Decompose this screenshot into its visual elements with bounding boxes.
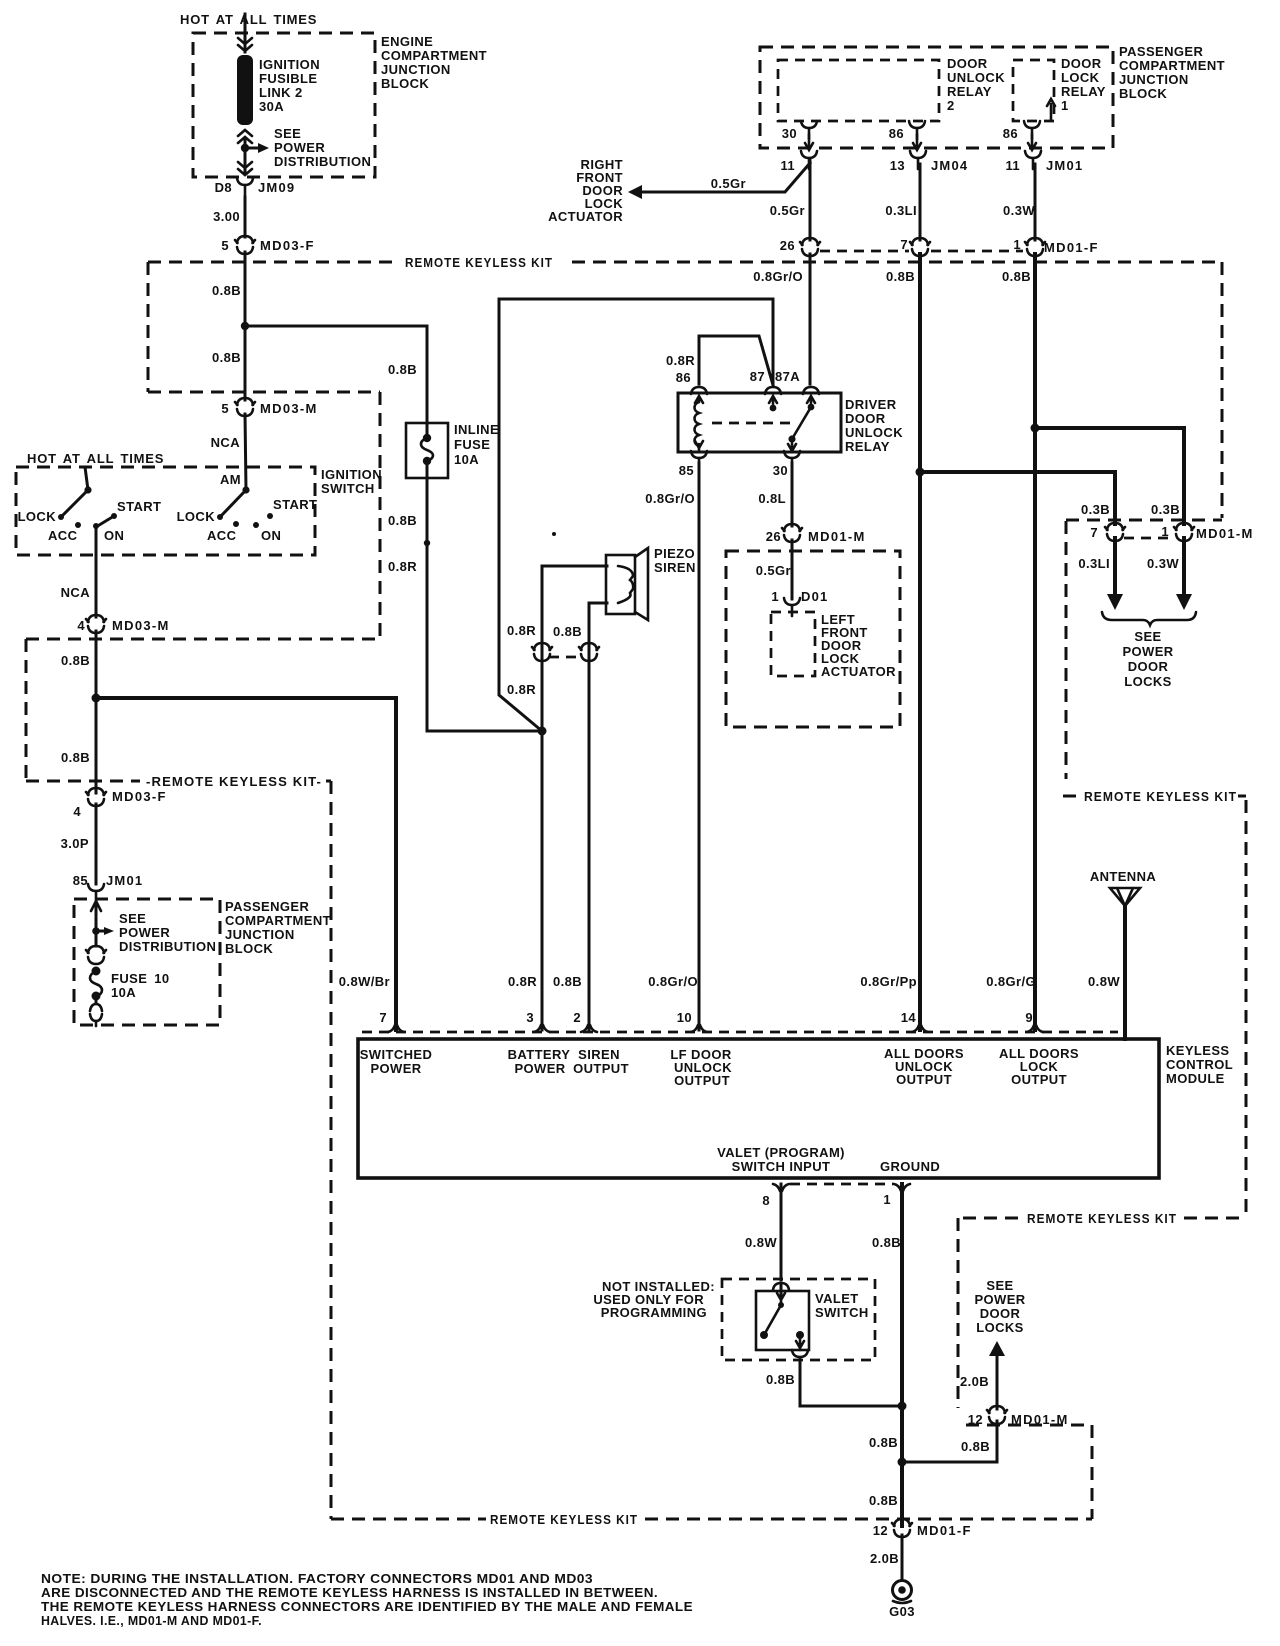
svg-text:REMOTE KEYLESS KIT: REMOTE KEYLESS KIT <box>1027 1211 1177 1226</box>
junction dot ground branch to MD01-M 12 <box>898 1458 907 1467</box>
connector pair on siren 0.8R lead <box>532 643 552 661</box>
svg-text:OUTPUT: OUTPUT <box>896 1072 952 1087</box>
svg-text:26: 26 <box>780 238 795 253</box>
svg-text:INLINE: INLINE <box>454 422 499 437</box>
svg-text:DOOR: DOOR <box>845 411 886 426</box>
relay K3 pin 30 stub <box>788 439 796 452</box>
svg-text:SEE: SEE <box>119 911 146 926</box>
remote keyless kit boundary: left label row dashes <box>26 780 140 783</box>
svg-text:HOT AT ALL TIMES: HOT AT ALL TIMES <box>180 12 317 27</box>
contact ACC (S1) <box>75 522 81 528</box>
svg-text:GROUND: GROUND <box>880 1159 940 1174</box>
factory harness boundary: top edge <box>148 391 380 394</box>
ignition switch box <box>16 467 315 555</box>
remote keyless kit boundary: mid right label row dash <box>1063 795 1081 798</box>
wire 0.3W to power door locks <box>1182 538 1186 596</box>
svg-text:30: 30 <box>773 463 788 478</box>
svg-text:JM09: JM09 <box>258 180 295 195</box>
svg-text:2: 2 <box>947 98 955 113</box>
relay K2 DOOR UNLOCK RELAY 2 (dashed box) <box>778 60 939 121</box>
relay K3 pin 85 connector <box>691 451 707 469</box>
svg-text:0.8R: 0.8R <box>507 623 536 638</box>
svg-text:0.8R: 0.8R <box>507 682 536 697</box>
svg-text:IGNITION: IGNITION <box>321 467 382 482</box>
svg-text:START: START <box>117 499 161 514</box>
svg-text:MD03-M: MD03-M <box>260 401 318 416</box>
svg-text:PIEZO: PIEZO <box>654 546 695 561</box>
svg-text:0.8B: 0.8B <box>553 974 582 989</box>
passenger compartment junction block (top, dashed box) <box>760 47 1113 148</box>
svg-text:0.3W: 0.3W <box>1003 203 1035 218</box>
wire 0.8B ground <box>900 1184 904 1526</box>
svg-text:PASSENGER: PASSENGER <box>1119 44 1203 59</box>
svg-text:REMOTE KEYLESS KIT: REMOTE KEYLESS KIT <box>405 255 553 270</box>
svg-text:10A: 10A <box>111 985 136 1000</box>
wire 0.5Gr to right front door lock actuator <box>640 163 810 192</box>
svg-text:0.8B: 0.8B <box>212 350 241 365</box>
svg-text:UNLOCK: UNLOCK <box>845 425 903 440</box>
svg-text:0.8W: 0.8W <box>745 1235 777 1250</box>
connector MD03-M pin 4 <box>86 615 106 633</box>
junction dot power distribution tap <box>92 927 100 935</box>
svg-text:SIREN: SIREN <box>654 560 696 575</box>
svg-text:10: 10 <box>677 1010 692 1025</box>
relay K3 coil-armature dashed link <box>712 422 797 425</box>
svg-text:REMOTE KEYLESS KIT: REMOTE KEYLESS KIT <box>490 1512 638 1527</box>
wire 3.00 <box>244 197 247 237</box>
svg-text:7: 7 <box>379 1010 387 1025</box>
svg-text:86: 86 <box>889 126 904 141</box>
wire 0.5Gr down to MD01-F 26 <box>809 160 812 240</box>
svg-text:LINK 2: LINK 2 <box>259 85 303 100</box>
connector at valet switch output <box>792 1350 808 1368</box>
svg-text:JM04: JM04 <box>931 158 968 173</box>
svg-text:MD03-F: MD03-F <box>112 789 167 804</box>
remote keyless kit boundary: right edge of ground stub box <box>1091 1425 1094 1519</box>
left front door lock actuator inner box <box>771 612 815 676</box>
wire 0.8Gr/O to relay pin 87A <box>809 254 812 384</box>
relay K3 pin 87A connector <box>803 387 819 394</box>
svg-text:0.8Gr/O: 0.8Gr/O <box>645 491 695 506</box>
wire antenna lead 0.8W <box>1123 905 1127 1039</box>
svg-text:D01: D01 <box>801 589 828 604</box>
svg-text:26: 26 <box>766 529 781 544</box>
svg-text:3: 3 <box>526 1010 534 1025</box>
relay K3 pin 86 connector <box>691 387 707 394</box>
remote keyless kit boundary: dash to corner at mid right <box>1238 795 1246 798</box>
piezo siren horn <box>635 548 648 620</box>
svg-text:ON: ON <box>104 528 124 543</box>
svg-text:0.8B: 0.8B <box>61 653 90 668</box>
ground G03 <box>893 1581 912 1600</box>
wire NCA to ignition switch AM <box>245 414 246 490</box>
fuse F10 (FUSE 10 10A) <box>92 967 101 976</box>
svg-text:PASSENGER: PASSENGER <box>225 899 309 914</box>
svg-text:LOCKS: LOCKS <box>1124 674 1172 689</box>
svg-text:OUTPUT: OUTPUT <box>1011 1072 1067 1087</box>
svg-text:BLOCK: BLOCK <box>381 76 429 91</box>
svg-text:ACC: ACC <box>48 528 78 543</box>
svg-text:11: 11 <box>780 158 795 173</box>
svg-text:START: START <box>273 497 317 512</box>
svg-text:MODULE: MODULE <box>1166 1071 1225 1086</box>
svg-text:2: 2 <box>573 1010 581 1025</box>
splice dot on inline fuse wire <box>424 540 430 546</box>
svg-text:0.8B: 0.8B <box>869 1493 898 1508</box>
module pin 7 foot <box>388 1025 404 1032</box>
brace under power door lock arrows <box>1102 612 1196 625</box>
remote keyless kit boundary: dashes after bottom right label <box>1184 1217 1243 1220</box>
svg-text:JUNCTION: JUNCTION <box>381 62 451 77</box>
svg-text:POWER: POWER <box>974 1292 1025 1307</box>
svg-text:1: 1 <box>771 589 779 604</box>
svg-text:0.3B: 0.3B <box>1151 502 1180 517</box>
svg-text:9: 9 <box>1025 1010 1033 1025</box>
svg-text:MD01-M: MD01-M <box>1196 526 1254 541</box>
fusible link F1 (IGNITION FUSIBLE LINK 2 30A) <box>237 55 253 125</box>
svg-text:2.0B: 2.0B <box>870 1551 899 1566</box>
svg-text:THE REMOTE KEYLESS HARNESS CON: THE REMOTE KEYLESS HARNESS CONNECTORS AR… <box>41 1599 693 1614</box>
keyless control module box <box>358 1039 1159 1178</box>
svg-text:OUTPUT: OUTPUT <box>573 1061 629 1076</box>
svg-text:SWITCHED: SWITCHED <box>360 1047 433 1062</box>
wire 2.0B to ground <box>901 1535 904 1580</box>
junction dot (see power distribution tap) <box>241 144 249 152</box>
wire 0.8B (to junction) <box>244 252 247 400</box>
svg-text:86: 86 <box>1003 126 1018 141</box>
svg-text:JUNCTION: JUNCTION <box>1119 72 1189 87</box>
junction dot 0.3B branch (unlock) <box>916 468 925 477</box>
piezo siren body <box>606 555 635 614</box>
svg-text:PROGRAMMING: PROGRAMMING <box>601 1305 707 1320</box>
left front door lock actuator outer dashed box <box>726 551 900 727</box>
svg-text:0.3W: 0.3W <box>1147 556 1179 571</box>
svg-text:0.8B: 0.8B <box>1002 269 1031 284</box>
svg-text:SWITCH: SWITCH <box>815 1305 869 1320</box>
contact START (S2) <box>267 513 273 519</box>
svg-text:0.8B: 0.8B <box>553 624 582 639</box>
svg-text:MD01-M: MD01-M <box>808 529 866 544</box>
engine compartment junction block (dashed box) <box>193 33 375 177</box>
svg-text:0.8B: 0.8B <box>869 1435 898 1450</box>
module pin 9 foot <box>1027 1025 1043 1032</box>
connector at valet switch input <box>773 1283 789 1290</box>
junction dot at 0.8B tap <box>241 322 249 330</box>
svg-text:POWER: POWER <box>370 1061 421 1076</box>
wire 0.8W valet switch input <box>780 1184 783 1280</box>
connector JM09 (cavity D8) <box>237 178 253 196</box>
svg-text:SWITCH: SWITCH <box>321 481 375 496</box>
valet switch contact arm <box>777 1293 785 1303</box>
svg-text:30A: 30A <box>259 99 284 114</box>
svg-text:11: 11 <box>1005 158 1020 173</box>
svg-text:MD01-M: MD01-M <box>1011 1412 1069 1427</box>
svg-text:G03: G03 <box>889 1604 915 1619</box>
remote keyless kit boundary: bottom edge left part <box>331 1518 486 1521</box>
wire 0.3LI down to MD01-F 7 <box>919 164 922 240</box>
contact LOCK (S2) <box>217 514 223 520</box>
svg-text:0.5Gr: 0.5Gr <box>711 176 746 191</box>
svg-text:MD01-F: MD01-F <box>1044 240 1099 255</box>
inline fuse holder box <box>406 423 448 478</box>
svg-text:RELAY: RELAY <box>1061 84 1106 99</box>
svg-text:CONTROL: CONTROL <box>1166 1057 1233 1072</box>
wire 0.8R feed to relay pin 87 (riser) <box>499 299 773 731</box>
svg-text:BLOCK: BLOCK <box>1119 86 1167 101</box>
junction dot switched power tap <box>92 694 101 703</box>
svg-text:COMPARTMENT: COMPARTMENT <box>1119 58 1225 73</box>
svg-text:FUSIBLE: FUSIBLE <box>259 71 317 86</box>
piezo siren coil <box>618 566 633 603</box>
wire 0.3B branch to MD01-M 7 <box>920 472 1115 524</box>
remote keyless kit boundary: horizontal at MD01-M row <box>1066 519 1222 522</box>
valet switch output contact <box>796 1331 804 1339</box>
relay K1 internal pin arrow <box>1047 99 1055 120</box>
junction dot valet/ground <box>898 1402 907 1411</box>
svg-text:1: 1 <box>1061 98 1069 113</box>
remote keyless kit boundary: top edge <box>148 261 399 264</box>
svg-text:NCA: NCA <box>211 435 241 450</box>
svg-text:HALVES. I.E., MD01-M AND MD01-: HALVES. I.E., MD01-M AND MD01-F. <box>41 1613 262 1628</box>
svg-text:3.00: 3.00 <box>213 209 240 224</box>
svg-text:85: 85 <box>679 463 694 478</box>
relay K3 pin 87 connector <box>765 387 781 394</box>
svg-text:0.8Gr/Pp: 0.8Gr/Pp <box>860 974 917 989</box>
svg-text:BATTERY: BATTERY <box>508 1047 571 1062</box>
svg-text:MD01-F: MD01-F <box>917 1523 972 1538</box>
svg-text:0.8B: 0.8B <box>872 1235 901 1250</box>
svg-text:DISTRIBUTION: DISTRIBUTION <box>274 154 371 169</box>
remote keyless kit boundary: left edge of see-power-door-locks lower box <box>957 1218 960 1408</box>
passenger compartment junction block (left, dashed box) <box>74 899 220 1025</box>
svg-text:BLOCK: BLOCK <box>225 941 273 956</box>
relay K3 coil <box>695 396 704 450</box>
svg-text:ANTENNA: ANTENNA <box>1090 869 1157 884</box>
wire 0.8R battery power to module pin 3 <box>541 566 544 1030</box>
connector MD03-F pin 4 <box>86 788 106 806</box>
contact ACC (S2) <box>233 521 239 527</box>
remote keyless kit boundary: dashes above 12 MD01-M <box>966 1424 1092 1427</box>
svg-text:0.8B: 0.8B <box>212 283 241 298</box>
svg-text:0.8Gr/O: 0.8Gr/O <box>648 974 698 989</box>
svg-text:UNLOCK: UNLOCK <box>947 70 1005 85</box>
module pin 2 foot <box>581 1025 597 1032</box>
svg-text:DISTRIBUTION: DISTRIBUTION <box>119 939 216 954</box>
svg-text:0.5Gr: 0.5Gr <box>756 563 791 578</box>
svg-text:0.8Gr/O: 0.8Gr/O <box>753 269 803 284</box>
svg-text:NCA: NCA <box>61 585 91 600</box>
svg-text:IGNITION: IGNITION <box>259 57 320 72</box>
wire 0.8B valet to ground junction <box>800 1362 902 1406</box>
remote keyless kit boundary: bottom edge right part <box>645 1518 1092 1521</box>
svg-text:COMPARTMENT: COMPARTMENT <box>381 48 487 63</box>
svg-text:SEE: SEE <box>274 126 301 141</box>
module pin 10 foot <box>691 1025 707 1032</box>
svg-text:0.3LI: 0.3LI <box>1078 556 1110 571</box>
relay K1 DOOR LOCK RELAY 1 (dashed box) <box>1013 60 1054 121</box>
svg-text:POWER: POWER <box>1122 644 1173 659</box>
wire 0.3W down to MD01-F 1 <box>1034 164 1037 240</box>
svg-text:AM: AM <box>220 472 241 487</box>
svg-text:JM01: JM01 <box>106 873 143 888</box>
wire 0.8B to junction <box>95 631 98 793</box>
svg-text:5: 5 <box>221 401 229 416</box>
svg-text:OUTPUT: OUTPUT <box>674 1073 730 1088</box>
svg-text:10A: 10A <box>454 452 479 467</box>
wire ignition output down (NCA) <box>95 526 98 617</box>
svg-text:LOCK: LOCK <box>18 509 57 524</box>
remote keyless kit boundary: right vertical above mid label <box>1065 521 1068 779</box>
remote keyless kit boundary: left edge upper <box>147 262 150 392</box>
svg-text:0.8B: 0.8B <box>61 750 90 765</box>
svg-text:0.8W: 0.8W <box>1088 974 1120 989</box>
wire 2.0B to power door locks <box>996 1355 999 1409</box>
boundary-crossing arrows at fusible link top <box>238 38 252 51</box>
svg-text:HOT AT ALL TIMES: HOT AT ALL TIMES <box>27 451 164 466</box>
module bottom connector dashed row <box>790 1183 893 1186</box>
svg-text:0.8B: 0.8B <box>886 269 915 284</box>
relay K3 armature <box>792 407 811 439</box>
svg-text:13: 13 <box>890 158 905 173</box>
svg-text:30: 30 <box>782 126 797 141</box>
contact START (S1) <box>111 513 117 519</box>
ignition switch S1 feed wire <box>85 467 88 490</box>
svg-text:FUSE 10: FUSE 10 <box>111 971 170 986</box>
svg-text:FUSE: FUSE <box>454 437 490 452</box>
svg-text:SEE: SEE <box>1134 629 1161 644</box>
wire 0.3LI to power door locks <box>1113 538 1117 596</box>
svg-text:VALET (PROGRAM): VALET (PROGRAM) <box>717 1145 845 1160</box>
ignition switch S1 wiper <box>84 486 91 493</box>
svg-text:LOCK: LOCK <box>1061 70 1100 85</box>
svg-text:DRIVER: DRIVER <box>845 397 897 412</box>
svg-text:ON: ON <box>261 528 281 543</box>
svg-text:0.8B: 0.8B <box>388 513 417 528</box>
svg-text:86: 86 <box>676 370 691 385</box>
svg-text:ENGINE: ENGINE <box>381 34 433 49</box>
svg-text:DOOR: DOOR <box>947 56 988 71</box>
wire 0.3B branch to MD01-M 1 <box>1035 428 1184 524</box>
svg-text:12: 12 <box>873 1523 888 1538</box>
dashed links between MD01-F connectors <box>820 250 909 253</box>
factory harness boundary: right edge <box>379 392 382 639</box>
wire 0.8Gr/O relay 85 to module pin 10 <box>698 463 701 1030</box>
wire 0.8B into inline fuse <box>426 326 429 424</box>
svg-text:SEE: SEE <box>986 1278 1013 1293</box>
wire relay coil 86 feed <box>699 336 773 385</box>
svg-text:0.3LI: 0.3LI <box>885 203 917 218</box>
svg-text:SWITCH INPUT: SWITCH INPUT <box>732 1159 831 1174</box>
svg-text:0.8R: 0.8R <box>666 353 695 368</box>
svg-text:DOOR: DOOR <box>1128 659 1169 674</box>
connector hook at fuse 10 bottom <box>95 997 98 1003</box>
svg-text:1: 1 <box>883 1192 891 1207</box>
wire 0.8L relay 30 to MD01-M 26 <box>791 463 794 526</box>
valet switch body <box>756 1291 809 1350</box>
module pin 3 foot <box>534 1025 550 1032</box>
svg-text:POWER: POWER <box>119 925 170 940</box>
remote keyless kit boundary: top edge right part <box>572 261 1222 264</box>
relay K3 driver door unlock relay box <box>678 393 841 452</box>
svg-text:8: 8 <box>762 1193 770 1208</box>
svg-text:LOCKS: LOCKS <box>976 1320 1024 1335</box>
svg-text:NOTE: DURING THE INSTALLATION.: NOTE: DURING THE INSTALLATION. FACTORY C… <box>41 1571 593 1586</box>
wire switched power branch to module pin 7 <box>96 698 396 1030</box>
wire 0.8B branch to MD01-M 12 <box>902 1421 997 1462</box>
svg-text:JM01: JM01 <box>1046 158 1083 173</box>
svg-text:0.8W/Br: 0.8W/Br <box>339 974 390 989</box>
svg-text:MD03-F: MD03-F <box>260 238 315 253</box>
contact LOCK (S1) <box>58 514 64 520</box>
svg-text:2.0B: 2.0B <box>960 1374 989 1389</box>
junction dot battery feed <box>538 727 547 736</box>
svg-text:12: 12 <box>968 1412 983 1427</box>
wire 0.8R to battery junction <box>427 730 542 733</box>
svg-text:0.5Gr: 0.5Gr <box>770 203 805 218</box>
dashed link between siren connectors <box>549 656 582 659</box>
svg-text:RELAY: RELAY <box>947 84 992 99</box>
svg-text:0.8B: 0.8B <box>961 1439 990 1454</box>
relay K3 contact 87A <box>807 396 815 403</box>
connector pair at fuse 10 top <box>86 946 106 964</box>
svg-text:0.8L: 0.8L <box>758 491 786 506</box>
svg-text:-REMOTE KEYLESS KIT-: -REMOTE KEYLESS KIT- <box>146 774 322 789</box>
svg-text:0.8Gr/G: 0.8Gr/G <box>986 974 1036 989</box>
remote keyless kit boundary: corner to left vertical <box>326 780 331 783</box>
svg-text:0.3B: 0.3B <box>1081 502 1110 517</box>
svg-text:VALET: VALET <box>815 1291 859 1306</box>
svg-text:3.0P: 3.0P <box>61 836 89 851</box>
wire 3.0P <box>95 804 98 884</box>
relay K3 pin 30 connector <box>784 451 800 469</box>
contact ON (S2) <box>253 522 259 528</box>
svg-text:4: 4 <box>73 804 81 819</box>
remote keyless kit boundary: upper right vertical edge <box>1221 262 1224 518</box>
svg-text:4: 4 <box>77 618 85 633</box>
wire fusible link to junction <box>244 138 247 172</box>
connector mating arrow inside block <box>91 901 101 911</box>
svg-text:85: 85 <box>73 873 88 888</box>
arrow to SEE POWER DISTRIBUTION <box>96 930 105 933</box>
module connector dashed row <box>362 1031 1118 1034</box>
connector MD03-M pin 5 <box>235 398 255 416</box>
wire from hot feed into engine junction block <box>244 14 247 52</box>
svg-text:POWER: POWER <box>274 140 325 155</box>
module pin 8 foot <box>773 1184 789 1191</box>
factory harness boundary: bottom edge <box>26 638 380 641</box>
remote keyless kit boundary: bottom right label row dashes <box>963 1217 1022 1220</box>
boundary-crossing arrows at engine box exit <box>238 162 252 175</box>
svg-text:COMPARTMENT: COMPARTMENT <box>225 913 331 928</box>
connector arrows below fusible link <box>238 130 252 143</box>
svg-text:14: 14 <box>901 1010 917 1025</box>
svg-text:ACC: ACC <box>207 528 237 543</box>
svg-text:KEYLESS: KEYLESS <box>1166 1043 1229 1058</box>
wire to power distribution tap <box>95 905 98 946</box>
factory harness boundary: left edge <box>25 639 28 779</box>
dashed link between MD01-M connectors <box>1124 537 1175 540</box>
remote keyless kit boundary: lower right vertical edge <box>1245 800 1248 1214</box>
piezo siren positive wire corner <box>542 565 607 568</box>
svg-text:ACTUATOR: ACTUATOR <box>548 209 623 224</box>
svg-text:5: 5 <box>221 238 229 253</box>
svg-text:POWER: POWER <box>514 1061 565 1076</box>
remote keyless kit boundary: mid-left vertical edge <box>330 781 333 1519</box>
svg-text:MD03-M: MD03-M <box>112 618 170 633</box>
contact ON (S1) <box>93 523 99 529</box>
module pin 14 foot <box>912 1025 928 1032</box>
svg-text:0.8B: 0.8B <box>766 1372 795 1387</box>
